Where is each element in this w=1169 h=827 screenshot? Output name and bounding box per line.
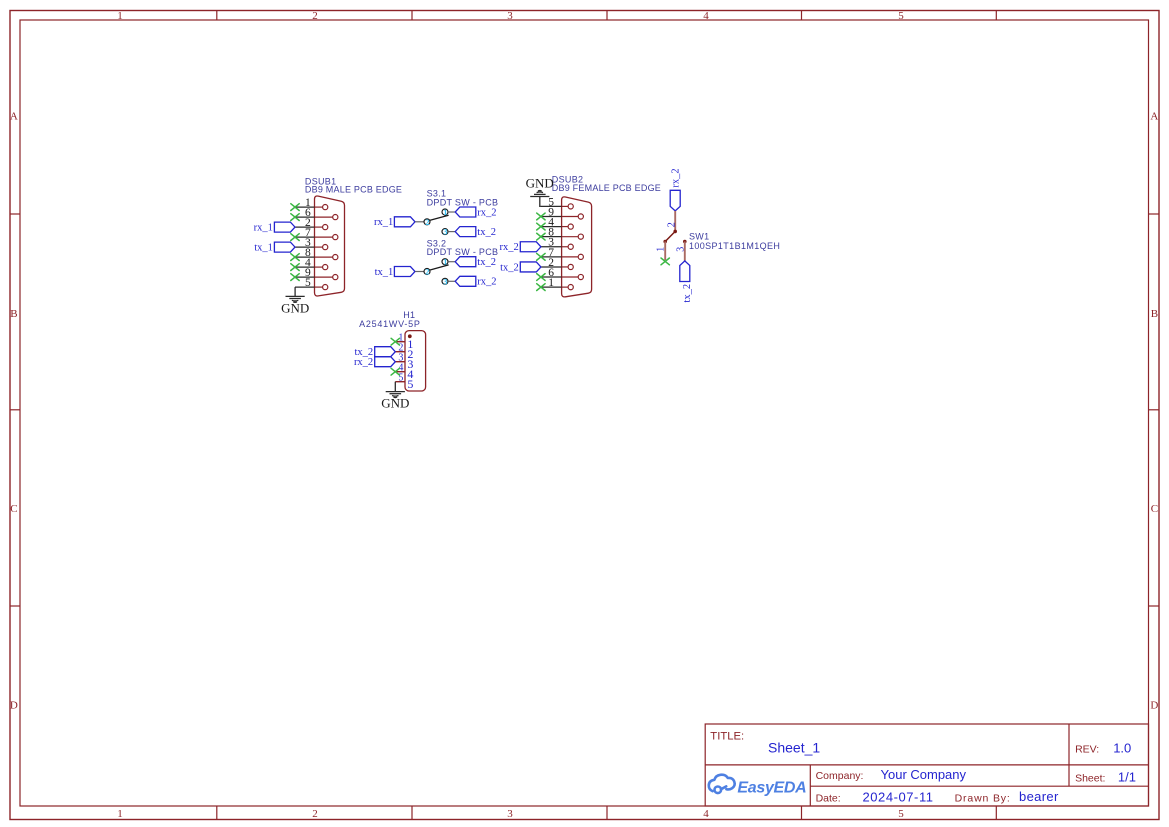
svg-text:1: 1 bbox=[443, 207, 447, 217]
svg-text:Date:: Date: bbox=[816, 792, 841, 804]
H1 pin 5 bbox=[395, 373, 413, 391]
switch S3.2 common contact pin 2 bbox=[424, 269, 430, 275]
svg-text:bearer: bearer bbox=[1019, 789, 1059, 804]
svg-text:tx_2: tx_2 bbox=[500, 262, 519, 273]
DSUB1 pin 8 bbox=[295, 247, 338, 260]
wire H1 pin 5 to ground bbox=[394, 382, 396, 392]
svg-text:4: 4 bbox=[703, 10, 709, 22]
svg-text:3: 3 bbox=[443, 276, 447, 286]
no-connect X on H1 pin 4 bbox=[391, 368, 399, 375]
H1 pin 4 bbox=[395, 363, 413, 381]
svg-text:rx_1: rx_1 bbox=[254, 223, 273, 234]
svg-text:2: 2 bbox=[312, 10, 318, 22]
ground symbol GND at DSUB1 bbox=[286, 296, 305, 302]
net flag rx_1 at S3.1 common bbox=[374, 217, 415, 228]
svg-text:C: C bbox=[10, 503, 17, 515]
svg-text:3: 3 bbox=[675, 247, 686, 252]
DSUB1 pin 2 bbox=[295, 217, 328, 230]
wire S3.2 throw 1 bbox=[448, 261, 455, 263]
svg-text:1: 1 bbox=[443, 257, 447, 267]
svg-text:3: 3 bbox=[443, 227, 447, 237]
connector DSUB1 body bbox=[315, 196, 345, 296]
switch S3.2 blade bbox=[430, 265, 449, 270]
border row ticks left bbox=[10, 214, 20, 606]
no-connect X on DSUB2 pin 4 bbox=[537, 223, 545, 230]
net flag rx_2 at SW1 pin 2 (rotated) bbox=[670, 168, 681, 211]
SW1 blade bbox=[665, 231, 675, 241]
svg-text:5: 5 bbox=[898, 10, 904, 22]
svg-text:Sheet_1: Sheet_1 bbox=[768, 739, 820, 755]
svg-text:2: 2 bbox=[425, 267, 429, 277]
DSUB1 pin 9 bbox=[295, 267, 338, 280]
svg-text:1: 1 bbox=[117, 10, 123, 22]
SW1 pivot dot pin 2 bbox=[673, 230, 677, 234]
ground symbol GND at DSUB2 bbox=[530, 191, 549, 197]
svg-text:B: B bbox=[1151, 308, 1158, 320]
svg-text:tx_1: tx_1 bbox=[254, 243, 273, 254]
DSUB2 pin 4 bbox=[541, 216, 573, 229]
no-connect X on DSUB1 pin 1 bbox=[291, 204, 299, 211]
svg-text:DPDT SW - PCB: DPDT SW - PCB bbox=[427, 197, 499, 207]
svg-text:4: 4 bbox=[703, 808, 709, 820]
net flag tx_2 at S3.1 throw 3 bbox=[455, 227, 496, 238]
no-connect X on DSUB2 pin 8 bbox=[537, 233, 545, 240]
svg-text:Sheet:: Sheet: bbox=[1075, 772, 1105, 784]
title block divider below title row bbox=[705, 764, 1148, 766]
net flag rx_2 on DSUB2 pin 3 bbox=[500, 242, 541, 253]
H1 pin 3 bbox=[395, 353, 413, 371]
SW1 pivot dot pin 3 bbox=[683, 240, 687, 244]
border row ticks right bbox=[1149, 214, 1160, 606]
svg-text:D: D bbox=[1150, 699, 1158, 711]
wire S3.1 throw 3 bbox=[448, 231, 455, 233]
svg-text:tx_2: tx_2 bbox=[682, 284, 693, 303]
svg-text:D: D bbox=[10, 699, 18, 711]
border column labels bottom bbox=[117, 808, 904, 820]
wire S3.2 throw 3 bbox=[448, 280, 455, 282]
no-connect X on SW1 pin 1 bbox=[661, 258, 669, 265]
svg-text:rx_1: rx_1 bbox=[374, 217, 393, 228]
net flag rx_2 at S3.2 throw 3 bbox=[455, 276, 496, 287]
switch S3.1 throw contact pin 1 bbox=[442, 209, 448, 215]
svg-text:A: A bbox=[10, 110, 18, 122]
title block divider right of logo cell bbox=[809, 765, 811, 806]
wire DSUB2 pin 5 to ground bbox=[540, 197, 541, 207]
net flag rx_2 at S3.1 throw 1 bbox=[455, 207, 496, 218]
svg-text:3: 3 bbox=[507, 10, 513, 22]
no-connect X on DSUB1 pin 9 bbox=[291, 274, 299, 281]
svg-text:rx_2: rx_2 bbox=[354, 357, 373, 368]
net flag rx_1 on DSUB1 pin 2 bbox=[254, 222, 295, 233]
net flag tx_2 at SW1 pin 3 (rotated) bbox=[680, 261, 693, 303]
net flag rx_2 on H1 pin 3 bbox=[354, 357, 395, 368]
svg-text:2024-07-11: 2024-07-11 bbox=[863, 789, 934, 804]
svg-text:A2541WV-5P: A2541WV-5P bbox=[359, 319, 421, 329]
wire S3.1 common bbox=[415, 221, 424, 223]
svg-text:SW1: SW1 bbox=[689, 232, 709, 242]
net flag tx_2 at S3.2 throw 1 bbox=[455, 257, 496, 268]
svg-text:1: 1 bbox=[656, 247, 667, 252]
net flag tx_2 on DSUB2 pin 2 bbox=[500, 262, 541, 273]
header H1 body bbox=[405, 331, 426, 391]
border column ticks bottom bbox=[217, 806, 997, 820]
wire DSUB1 pin 5 to ground bbox=[294, 287, 296, 296]
svg-text:3: 3 bbox=[507, 808, 513, 820]
DSUB2 pin 8 bbox=[541, 227, 584, 240]
border row labels left bbox=[10, 110, 18, 711]
header H1 pin-1 marker dot bbox=[408, 334, 412, 338]
SW1 pin 3 bbox=[684, 242, 686, 261]
no-connect X on DSUB2 pin 7 bbox=[537, 253, 545, 260]
title block divider left of REV column bbox=[1068, 724, 1070, 786]
svg-text:TITLE:: TITLE: bbox=[710, 731, 744, 743]
svg-text:Your Company: Your Company bbox=[881, 767, 967, 782]
SW1 pin 1 bbox=[664, 242, 666, 261]
svg-text:Company:: Company: bbox=[816, 770, 864, 782]
DSUB1 pin 7 bbox=[295, 227, 338, 240]
svg-text:2: 2 bbox=[312, 808, 318, 820]
no-connect X on DSUB2 pin 9 bbox=[537, 213, 545, 220]
SW1 pin 2 bbox=[674, 211, 676, 232]
border column ticks top bbox=[217, 11, 997, 21]
svg-text:2: 2 bbox=[425, 217, 429, 227]
no-connect X on DSUB1 pin 4 bbox=[291, 264, 299, 271]
SW1 pivot dot pin 1 bbox=[663, 240, 667, 244]
no-connect X on DSUB2 pin 1 bbox=[537, 284, 545, 291]
svg-text:GND: GND bbox=[526, 175, 554, 190]
DSUB2 pin 9 bbox=[541, 206, 584, 219]
DSUB2 pin 2 bbox=[541, 257, 573, 270]
svg-text:A: A bbox=[1150, 110, 1158, 122]
DSUB2 pin 3 bbox=[541, 237, 573, 250]
svg-text:tx_2: tx_2 bbox=[477, 227, 496, 238]
DSUB2 pin 7 bbox=[541, 247, 584, 260]
svg-text:1: 1 bbox=[117, 808, 123, 820]
svg-text:2: 2 bbox=[667, 222, 678, 227]
svg-text:tx_2: tx_2 bbox=[477, 257, 496, 268]
switch S3.1 blade bbox=[430, 215, 449, 220]
svg-text:tx_1: tx_1 bbox=[375, 267, 394, 278]
svg-text:DB9 FEMALE PCB EDGE: DB9 FEMALE PCB EDGE bbox=[552, 183, 661, 193]
svg-text:1.0: 1.0 bbox=[1113, 740, 1131, 755]
svg-text:rx_2: rx_2 bbox=[500, 242, 519, 253]
title block divider below company row bbox=[810, 785, 1148, 787]
svg-text:1/1: 1/1 bbox=[1118, 769, 1136, 784]
svg-text:GND: GND bbox=[381, 396, 409, 411]
ground symbol GND at H1 bbox=[386, 392, 405, 398]
no-connect X on DSUB2 pin 6 bbox=[537, 274, 545, 281]
DSUB1 pin 1 bbox=[295, 197, 328, 210]
svg-text:DB9 MALE PCB EDGE: DB9 MALE PCB EDGE bbox=[305, 185, 402, 195]
DSUB1 pin 3 bbox=[295, 237, 328, 250]
svg-text:1: 1 bbox=[548, 277, 554, 289]
title block outline bbox=[705, 724, 1148, 806]
switch S3.1 throw contact pin 3 bbox=[442, 229, 448, 235]
no-connect X on DSUB1 pin 7 bbox=[291, 234, 299, 241]
net flag tx_1 on DSUB1 pin 3 bbox=[254, 242, 295, 253]
svg-text:rx_2: rx_2 bbox=[477, 277, 496, 288]
svg-text:rx_2: rx_2 bbox=[671, 168, 682, 187]
wire S3.2 common bbox=[415, 271, 424, 273]
no-connect X on DSUB1 pin 8 bbox=[291, 254, 299, 261]
svg-text:DPDT SW - PCB: DPDT SW - PCB bbox=[427, 247, 499, 257]
wire S3.1 throw 1 bbox=[448, 211, 455, 213]
no-connect X on DSUB1 pin 6 bbox=[291, 214, 299, 221]
no-connect X on H1 pin 1 bbox=[391, 338, 399, 345]
svg-text:Drawn By:: Drawn By: bbox=[955, 793, 1011, 805]
svg-text:B: B bbox=[10, 308, 17, 320]
net flag tx_1 at S3.2 common bbox=[375, 267, 415, 278]
switch S3.2 throw contact pin 1 bbox=[442, 259, 448, 265]
H1 pin 1 bbox=[395, 333, 413, 351]
DSUB2 pin 6 bbox=[541, 267, 584, 280]
svg-text:rx_2: rx_2 bbox=[477, 207, 496, 218]
border row labels right bbox=[1150, 110, 1158, 711]
svg-text:REV:: REV: bbox=[1075, 743, 1099, 755]
switch S3.1 common contact pin 2 bbox=[424, 219, 430, 225]
svg-text:100SP1T1B1M1QEH: 100SP1T1B1M1QEH bbox=[689, 241, 780, 251]
svg-text:C: C bbox=[1151, 503, 1158, 515]
net flag tx_2 on H1 pin 2 bbox=[355, 347, 396, 358]
svg-text:GND: GND bbox=[281, 301, 309, 316]
svg-text:5: 5 bbox=[898, 808, 904, 820]
EasyEDA logo cloud icon bbox=[709, 775, 735, 793]
svg-text:5: 5 bbox=[407, 377, 413, 391]
DSUB2 pin 5 bbox=[541, 196, 573, 209]
DSUB2 pin 1 bbox=[541, 277, 573, 290]
DSUB1 pin 6 bbox=[295, 207, 338, 220]
border column labels top bbox=[117, 10, 904, 22]
connector DSUB2 body bbox=[562, 197, 592, 297]
DSUB1 pin 5 bbox=[295, 277, 328, 290]
H1 pin 2 bbox=[395, 343, 413, 361]
DSUB1 pin 4 bbox=[295, 257, 328, 270]
svg-text:5: 5 bbox=[305, 277, 311, 289]
switch S3.2 throw contact pin 3 bbox=[442, 278, 448, 284]
svg-text:EasyEDA: EasyEDA bbox=[737, 779, 806, 796]
